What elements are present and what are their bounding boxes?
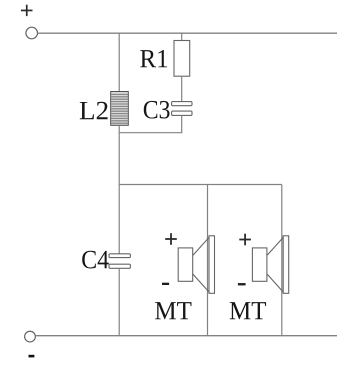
negative terminal <box>25 331 36 342</box>
speaker MT2 <box>252 236 288 293</box>
wire box right edge <box>281 185 283 336</box>
capacitor C3 <box>172 102 192 116</box>
wire link L2/C3 bottoms <box>119 132 182 134</box>
minus label (input -) <box>29 355 35 358</box>
wire box divider <box>207 185 209 336</box>
wire R1 to C3 <box>181 76 183 102</box>
wire bottom rail <box>35 335 337 337</box>
wire L2 branch from top rail <box>118 33 120 91</box>
label + (MT1 polarity) <box>165 233 177 245</box>
label + (MT2 polarity) <box>239 234 251 246</box>
label L2 <box>80 102 108 119</box>
wire C3 bottom lead <box>181 115 183 132</box>
speaker MT1 <box>178 236 214 293</box>
positive terminal <box>26 27 38 39</box>
inductor L2 <box>111 92 129 126</box>
wire left branch L2 to C4 <box>118 125 120 254</box>
plus label (input +) <box>21 5 33 16</box>
capacitor C4 <box>109 254 130 269</box>
wire R1 branch from top rail <box>181 33 183 40</box>
wire top rail <box>37 32 337 34</box>
label MT (speaker 2) <box>230 302 266 319</box>
label R1 <box>140 50 167 67</box>
wire speaker box top <box>119 184 282 186</box>
label C4 <box>82 251 109 269</box>
label - (MT2 polarity) <box>238 283 246 285</box>
label C3 <box>144 101 170 119</box>
label MT (speaker 1) <box>155 302 191 319</box>
wire C4 to bottom rail <box>118 268 120 335</box>
label - (MT1 polarity) <box>162 283 169 285</box>
resistor R1 <box>174 41 190 77</box>
